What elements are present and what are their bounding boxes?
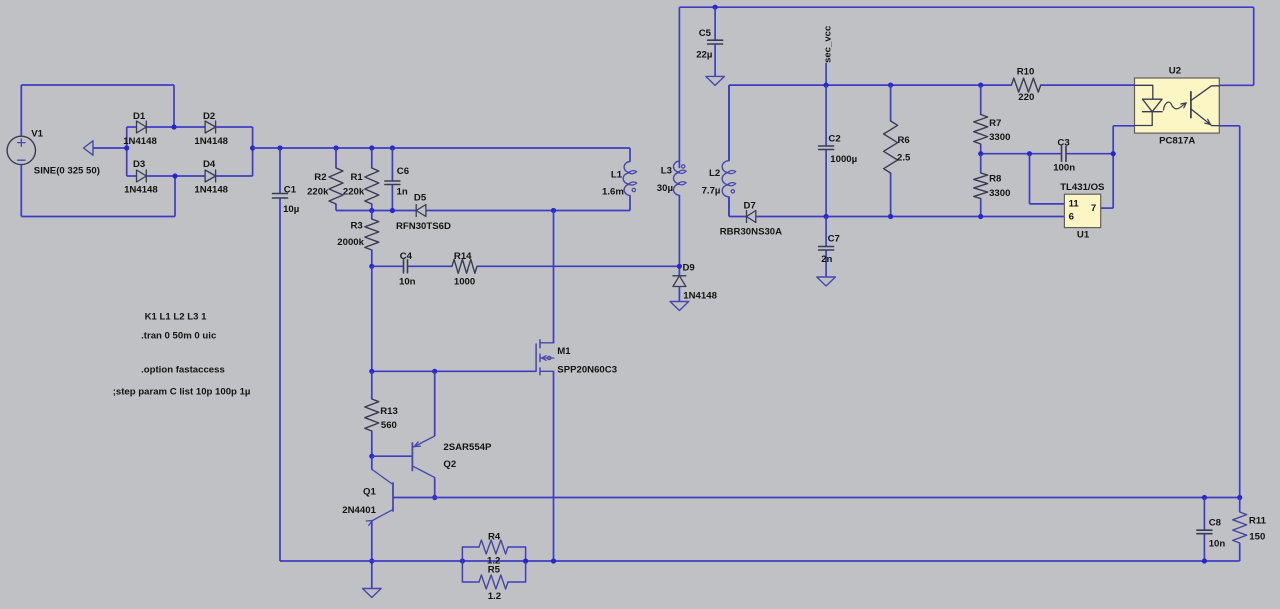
- svg-text:560: 560: [381, 420, 397, 431]
- wire lower rail R2 to D5: [336, 210, 416, 212]
- svg-text:1N4148: 1N4148: [194, 136, 228, 147]
- svg-text:SPP20N60C3: SPP20N60C3: [557, 364, 617, 375]
- capacitor C3: [1062, 146, 1067, 161]
- wire R3 node to gate rail: [371, 266, 373, 371]
- capacitor C5: [714, 7, 716, 40]
- svg-text:150: 150: [1249, 531, 1265, 542]
- resistor R13: [371, 371, 373, 399]
- wire secondary top rail: [679, 6, 1253, 8]
- inductor L1: [629, 148, 631, 162]
- svg-text:C5: C5: [699, 28, 712, 39]
- svg-text:RBR30NS30A: RBR30NS30A: [720, 227, 782, 238]
- diode D3: [137, 170, 147, 182]
- svg-text:220k: 220k: [307, 186, 329, 197]
- svg-text:10n: 10n: [1209, 539, 1226, 550]
- diode D9: [673, 276, 686, 287]
- svg-text:R11: R11: [1249, 515, 1267, 526]
- resistor R3: [371, 211, 373, 220]
- node Q1 emitter ground: [369, 558, 374, 563]
- capacitor C2: [825, 85, 827, 146]
- svg-text:C1: C1: [284, 184, 297, 195]
- wire top-left from V1: [21, 84, 174, 86]
- svg-text:R13: R13: [380, 406, 398, 417]
- node D3-D4: [172, 173, 177, 178]
- wire M1 drain: [553, 211, 555, 343]
- svg-text:D3: D3: [133, 159, 145, 170]
- wire gate rail: [372, 370, 536, 372]
- wire Q1 collector riser: [371, 456, 373, 469]
- U2 light arrow: [1164, 102, 1186, 110]
- node R6 top: [888, 83, 893, 88]
- node Q1 base junction: [432, 495, 437, 500]
- wire sec_vcc stub: [825, 63, 827, 85]
- node bridge left: [124, 145, 129, 150]
- svg-text:M1: M1: [557, 346, 571, 357]
- svg-text:R7: R7: [989, 118, 1001, 129]
- diode D1: [137, 121, 147, 133]
- mosfet M1: [535, 344, 537, 371]
- svg-text:1.2: 1.2: [488, 591, 501, 602]
- svg-text:1N4148: 1N4148: [124, 184, 158, 195]
- wire U1 pin7 stub: [1101, 207, 1114, 209]
- svg-text:L2: L2: [709, 168, 720, 179]
- U2 internal LED: [1135, 85, 1153, 125]
- node C3 right junction: [1111, 151, 1116, 156]
- node R4R5 left: [460, 558, 465, 563]
- svg-text:R5: R5: [488, 565, 501, 576]
- svg-text:Q2: Q2: [443, 459, 456, 470]
- svg-text:K1 L1 L2 L3 1: K1 L1 L2 L3 1: [145, 312, 208, 323]
- svg-text:C8: C8: [1209, 518, 1222, 529]
- node R3 bottom: [369, 264, 374, 269]
- svg-text:2000k: 2000k: [337, 237, 364, 248]
- diode D4: [205, 170, 216, 182]
- svg-text:D9: D9: [683, 263, 695, 274]
- node D1-D2: [171, 124, 176, 129]
- svg-text:R4: R4: [488, 531, 501, 542]
- resistor R5: [462, 561, 479, 582]
- capacitor C6: [391, 148, 393, 181]
- svg-text:C4: C4: [400, 251, 413, 262]
- svg-text:2SAR554P: 2SAR554P: [443, 442, 492, 453]
- node R4R5 right: [523, 558, 528, 563]
- svg-text:100n: 100n: [1053, 162, 1075, 173]
- svg-text:C7: C7: [828, 234, 840, 245]
- node R7 top: [978, 83, 983, 88]
- wire Q2 emitter riser: [434, 371, 436, 436]
- resistor R6: [890, 85, 892, 121]
- svg-text:D1: D1: [133, 111, 146, 122]
- resistor R2: [335, 148, 337, 168]
- svg-text:2N4401: 2N4401: [342, 505, 376, 516]
- svg-text:C2: C2: [828, 133, 840, 144]
- resistor R4: [462, 547, 479, 561]
- node R11 top: [1237, 495, 1242, 500]
- node C6 top: [390, 145, 395, 150]
- svg-text:C6: C6: [397, 166, 409, 177]
- svg-text:11: 11: [1069, 199, 1080, 210]
- wire L2 to D7: [728, 197, 730, 217]
- diode D5: [416, 205, 426, 217]
- node R7 bottom: [978, 151, 983, 156]
- svg-text:3300: 3300: [989, 132, 1010, 143]
- wire L3 to D9: [678, 195, 680, 275]
- node C1 top: [277, 145, 282, 150]
- svg-text:R10: R10: [1017, 67, 1035, 78]
- svg-text:3300: 3300: [989, 188, 1010, 199]
- node C6 bottom: [390, 208, 395, 213]
- wire M1 source: [553, 371, 555, 561]
- resistor R11: [1239, 498, 1241, 513]
- svg-text:7.7µ: 7.7µ: [702, 186, 721, 197]
- resistor R1: [371, 148, 373, 168]
- wire feedback node rail: [981, 153, 1062, 155]
- svg-text:2n: 2n: [821, 254, 832, 265]
- ground below Q1: [363, 589, 382, 598]
- node R1 top: [369, 145, 374, 150]
- resistor R7: [980, 85, 982, 114]
- svg-text:D5: D5: [414, 192, 427, 203]
- svg-text:V1: V1: [31, 129, 43, 140]
- node R2 top: [333, 145, 338, 150]
- node R8 bottom: [978, 214, 983, 219]
- wire V1 top lead: [20, 85, 22, 136]
- node R3 top: [369, 208, 374, 213]
- wire primary bottom: [21, 216, 175, 218]
- capacitor C4: [372, 265, 404, 267]
- node ref divider tap: [1027, 151, 1032, 156]
- capacitor C1: [279, 148, 281, 194]
- node C5 top: [713, 5, 718, 10]
- wire Q1 emitter drop: [371, 521, 373, 589]
- node R6 bottom: [888, 214, 893, 219]
- svg-text:220: 220: [1018, 92, 1034, 103]
- wire D2 cathode to corner: [216, 126, 253, 128]
- wire Q2 base: [372, 455, 413, 457]
- transistor Q2: [411, 443, 413, 471]
- node C8 top: [1202, 495, 1207, 500]
- node Q2 emitter junction: [432, 369, 437, 374]
- wire to U2 cathode: [1113, 125, 1134, 127]
- diode D2: [205, 121, 216, 133]
- svg-text:.option fastaccess: .option fastaccess: [141, 364, 225, 375]
- wire main bus: [253, 147, 630, 149]
- wire to D1 anode: [127, 126, 137, 128]
- optocoupler U2 PC817A box: [1135, 78, 1220, 133]
- svg-text:R3: R3: [351, 221, 363, 232]
- ground below C7: [817, 277, 836, 286]
- wire D3-D4: [146, 175, 205, 177]
- wire to D3 anode: [127, 175, 137, 177]
- svg-text:R2: R2: [314, 172, 326, 183]
- wire secondary vcc rail: [729, 84, 1011, 86]
- svg-text:R14: R14: [454, 251, 472, 262]
- wire L3 column upper: [678, 7, 680, 161]
- wire D5 to L1: [426, 210, 630, 212]
- wire to U1 pin 11: [1029, 154, 1031, 204]
- svg-text:7: 7: [1091, 203, 1096, 214]
- svg-text:22µ: 22µ: [696, 50, 712, 61]
- node C2 top: [824, 83, 829, 88]
- wire bottom rail: [280, 560, 1240, 562]
- svg-text:.tran 0 50m 0 uic: .tran 0 50m 0 uic: [141, 330, 217, 341]
- svg-text:1N4148: 1N4148: [123, 136, 157, 147]
- svg-text:TL431/OS: TL431/OS: [1060, 182, 1105, 193]
- wire secondary lower rail: [756, 216, 1065, 218]
- svg-text:L3: L3: [661, 165, 672, 176]
- inductor L2: [728, 85, 730, 161]
- svg-text:;step param C list 10p 100p 1µ: ;step param C list 10p 100p 1µ: [113, 387, 251, 398]
- wire pin7 riser: [1112, 126, 1114, 208]
- svg-text:D4: D4: [203, 159, 216, 170]
- svg-text:220k: 220k: [343, 186, 365, 197]
- transistor Q1: [392, 483, 394, 511]
- node D9 top: [677, 264, 682, 269]
- wire D1-D2: [146, 126, 205, 128]
- svg-text:RFN30TS6D: RFN30TS6D: [396, 221, 451, 232]
- wire bridge left vertical: [126, 127, 128, 176]
- svg-text:SINE(0 325 50): SINE(0 325 50): [34, 166, 100, 177]
- capacitor C7: [825, 217, 827, 247]
- shunt regulator U1 TL431: [1064, 194, 1100, 227]
- node M1 drain junction: [551, 208, 556, 213]
- svg-text:D7: D7: [744, 201, 756, 212]
- wire bridge right vertical: [252, 127, 254, 176]
- node C8 bottom: [1202, 558, 1207, 563]
- svg-text:D2: D2: [203, 111, 215, 122]
- resistor R8: [980, 154, 982, 173]
- diode D7: [747, 211, 756, 223]
- svg-text:1N4148: 1N4148: [683, 290, 717, 301]
- wire U2 emitter out: [1219, 125, 1239, 127]
- wire primary bottom riser: [174, 176, 176, 217]
- wire L2 column upper: [728, 85, 730, 161]
- svg-text:30µ: 30µ: [657, 183, 673, 194]
- svg-text:2.5: 2.5: [897, 152, 911, 163]
- wire D4 cathode to corner: [216, 175, 253, 177]
- svg-text:L1: L1: [611, 169, 623, 180]
- ground below C5: [706, 76, 725, 85]
- svg-text:1n: 1n: [397, 186, 408, 197]
- inductor L3: [678, 161, 680, 168]
- input arrow port: [84, 141, 94, 155]
- node C2 bottom: [824, 214, 829, 219]
- svg-text:1000: 1000: [454, 276, 475, 287]
- node M1 source ground: [551, 558, 556, 563]
- voltage source V1: [7, 136, 35, 164]
- resistor R14: [449, 265, 452, 267]
- svg-text:R6: R6: [898, 135, 910, 146]
- wire D9 to ground: [678, 287, 680, 302]
- wire U2 emitter drop: [1239, 126, 1241, 498]
- svg-text:U1: U1: [1077, 229, 1090, 240]
- svg-text:1.6m: 1.6m: [602, 187, 624, 198]
- wire R10 to U2: [1041, 84, 1135, 86]
- node bridge output: [250, 145, 255, 150]
- svg-text:PC817A: PC817A: [1159, 136, 1195, 147]
- resistor R10: [1011, 78, 1040, 92]
- svg-text:10µ: 10µ: [283, 204, 299, 215]
- wire Q1 base rail: [393, 497, 1240, 499]
- svg-text:6: 6: [1069, 211, 1074, 222]
- U2 phototransistor: [1190, 92, 1192, 118]
- wire R14 to D9 node: [480, 265, 679, 267]
- svg-text:10n: 10n: [399, 276, 416, 287]
- svg-text:1000µ: 1000µ: [830, 154, 857, 165]
- svg-text:sec_vcc: sec_vcc: [823, 25, 834, 63]
- capacitor C8: [1203, 498, 1205, 531]
- node gate rail left: [369, 369, 374, 374]
- wire Q2 collector drop: [434, 478, 436, 498]
- node Q2 base junction: [369, 454, 374, 459]
- svg-text:R1: R1: [351, 172, 364, 183]
- svg-text:C3: C3: [1057, 137, 1069, 148]
- svg-text:Q1: Q1: [363, 487, 376, 498]
- wire top riser to D1-D2 node: [173, 85, 175, 127]
- svg-text:U2: U2: [1169, 65, 1181, 76]
- svg-text:R8: R8: [989, 174, 1002, 185]
- svg-text:1N4148: 1N4148: [194, 184, 228, 195]
- ground below D9: [670, 302, 689, 311]
- wire U2 collector to top: [1219, 84, 1253, 86]
- wire V1 bottom lead: [20, 165, 22, 217]
